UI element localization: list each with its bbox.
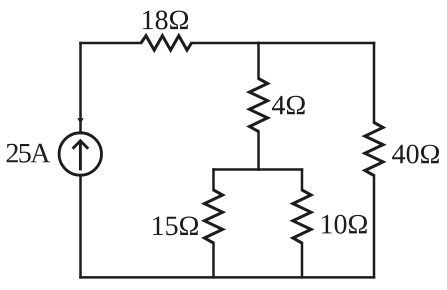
wire middle branch upper (node B to 4ohm): [257, 43, 260, 79]
wire top-middle segment (18ohm to node B): [192, 42, 259, 45]
resistor 15ohm (left of pair) zigzag: [204, 190, 222, 243]
current source I 25A circle: [59, 133, 101, 175]
label 10ohm value: [322, 215, 367, 234]
current source arrow (pointing up): [73, 141, 89, 171]
wire right branch upper (node C to 40ohm): [373, 43, 376, 123]
resistor 18ohm (top) zigzag: [141, 36, 192, 50]
wire top-right segment (node B to node C): [259, 42, 375, 45]
wire top-left segment (node A to 18ohm resistor): [81, 42, 142, 45]
wire right branch lower (40ohm to bottom rail): [373, 176, 376, 278]
resistor 10ohm (right of pair) zigzag: [293, 190, 311, 243]
resistor 40ohm (right) zigzag: [365, 123, 383, 176]
wire right leg lower (10ohm to bottom rail): [301, 243, 304, 277]
wire bottom rail (node D): [81, 276, 375, 279]
wire left leg upper (node E to 15ohm): [212, 170, 215, 191]
label 18ohm value: [143, 11, 188, 30]
wire direction arrowhead above current source: [77, 118, 83, 123]
wire left leg lower (15ohm to bottom rail): [212, 243, 215, 277]
wire middle branch lower (4ohm to node E): [257, 132, 260, 170]
label 40ohm value: [392, 145, 439, 164]
wire left branch upper (node A down to current source): [79, 43, 82, 133]
wire right leg upper (node E to 10ohm): [301, 170, 304, 191]
wire node E top rail of parallel pair: [214, 168, 303, 171]
wire left branch lower (current source to bottom rail): [79, 175, 82, 277]
label 4ohm value: [272, 96, 305, 115]
resistor 4ohm (middle) zigzag: [249, 79, 267, 132]
label 15ohm value: [153, 217, 198, 236]
label 25A value: [7, 144, 51, 163]
